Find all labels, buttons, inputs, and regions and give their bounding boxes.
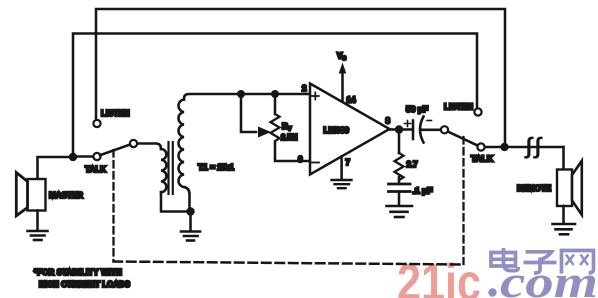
minus mark of 50uF bbox=[427, 120, 432, 122]
ground (transformer) bbox=[181, 232, 200, 241]
ground (remote speaker) bbox=[553, 224, 576, 234]
svg-text:2.5M: 2.5M bbox=[281, 133, 298, 142]
capacitor C1 50uF left plate bbox=[412, 121, 415, 140]
speaker MASTER cone bbox=[16, 173, 27, 216]
wire break to remote speaker bbox=[562, 147, 565, 170]
dashed wall partition bottom bbox=[114, 262, 464, 265]
wire node A down to wiper arrow bbox=[241, 94, 256, 132]
ground (C2) bbox=[387, 206, 413, 217]
pin 14 stub and Vs supply arrow bbox=[341, 72, 344, 102]
op-amp U1 LM380 bbox=[310, 84, 390, 175]
watermark chinese characters bbox=[491, 248, 594, 274]
svg-text:21ic: 21ic bbox=[397, 254, 481, 298]
minus input mark bbox=[312, 162, 319, 164]
svg-text:*FOR STABILITY WITH: *FOR STABILITY WITH bbox=[34, 268, 122, 277]
wire remote speaker to ground bbox=[562, 206, 565, 223]
switch contact LISTEN (master) bbox=[93, 120, 100, 127]
svg-text:REMOTE: REMOTE bbox=[517, 183, 551, 193]
wire RV bottom to op-amp - input bbox=[275, 143, 310, 161]
switch contact TALK (master) bbox=[93, 153, 100, 160]
svg-text:7: 7 bbox=[346, 158, 351, 167]
svg-text:TALK: TALK bbox=[471, 154, 494, 164]
svg-text:8: 8 bbox=[386, 117, 391, 126]
plus mark of 50uF bbox=[405, 121, 411, 127]
svg-text:MASTER: MASTER bbox=[49, 190, 83, 200]
svg-text:HIGH CURRENT LOADS: HIGH CURRENT LOADS bbox=[39, 280, 130, 289]
ground (master speaker) bbox=[28, 231, 48, 240]
transformer core bbox=[167, 142, 169, 194]
ground (pin 7) bbox=[332, 180, 352, 188]
wire node B down to RV top bbox=[274, 94, 277, 114]
switch contact TALK (remote) bbox=[477, 143, 484, 150]
node transformer common bbox=[186, 207, 194, 215]
switch pivot contact (remote) bbox=[441, 126, 448, 133]
svg-text:2: 2 bbox=[302, 84, 307, 93]
switch pivot contact (master, to T1 primary) bbox=[130, 140, 137, 147]
wire T1 secondary top to op-amp + input bbox=[184, 94, 310, 100]
wire op-amp output to node bbox=[390, 128, 400, 131]
wire node to ground bbox=[189, 212, 192, 231]
watermark 21ic.com bbox=[397, 254, 598, 298]
wire second bus from master TALK node to remote LISTEN bbox=[73, 34, 477, 156]
svg-text:.1 µF: .1 µF bbox=[413, 187, 433, 196]
node output bbox=[395, 125, 403, 133]
speaker REMOTE body bbox=[557, 170, 572, 207]
capacitor C2 .1uF bbox=[389, 184, 411, 192]
pin 7 stub bbox=[340, 157, 343, 179]
wire pivot to transformer primary bbox=[137, 144, 161, 150]
wire node to 50uF cap bbox=[399, 128, 412, 131]
svg-text:VS: VS bbox=[337, 52, 346, 63]
switch arm S2 (remote) bbox=[448, 132, 478, 146]
dashed wall partition right bbox=[462, 137, 464, 264]
svg-text:LISTEN: LISTEN bbox=[444, 102, 473, 112]
wire T1 secondary bottom to common node bbox=[184, 187, 190, 212]
resistor R1 2.7 bbox=[398, 130, 401, 154]
wire node to TALK contact bbox=[73, 155, 92, 158]
wire top bus from master LISTEN to remote TALK bbox=[96, 9, 505, 144]
svg-text:∫: ∫ bbox=[531, 135, 545, 161]
capacitor C1 50uF curved plate bbox=[420, 117, 424, 143]
svg-text:RV: RV bbox=[282, 122, 292, 133]
svg-text:LISTEN: LISTEN bbox=[101, 108, 130, 118]
wire TALK contact to node bbox=[485, 146, 501, 149]
svg-text:T1 = 25:1: T1 = 25:1 bbox=[198, 162, 234, 172]
plus input mark bbox=[312, 93, 319, 100]
svg-text:2.7: 2.7 bbox=[407, 160, 419, 169]
svg-text:LM380: LM380 bbox=[324, 126, 350, 135]
svg-text:14: 14 bbox=[347, 96, 356, 105]
wire cap to switch pivot bbox=[422, 129, 441, 132]
dashed wall partition left bbox=[112, 150, 114, 261]
wire node to cable break bbox=[505, 146, 564, 149]
node remote TALK junction bbox=[500, 143, 508, 151]
svg-text:50 µF: 50 µF bbox=[406, 105, 428, 114]
node B (RV top branch) bbox=[271, 90, 279, 98]
speaker REMOTE cone bbox=[572, 161, 582, 215]
switch contact LISTEN (remote) bbox=[474, 108, 481, 115]
transformer T1 secondary winding bbox=[178, 100, 184, 188]
transformer T1 primary winding bbox=[161, 149, 166, 192]
wire master node to speaker bbox=[38, 157, 74, 179]
switch arm S1 (master) bbox=[100, 145, 130, 156]
speaker MASTER body bbox=[28, 179, 46, 211]
node A (RV wiper branch) bbox=[237, 90, 245, 98]
wire T1 primary bottom to common node bbox=[161, 192, 187, 211]
svg-text:6: 6 bbox=[298, 155, 303, 164]
node master TALK junction bbox=[69, 153, 77, 161]
wire master speaker to ground bbox=[36, 211, 39, 230]
svg-text:TALK: TALK bbox=[85, 164, 107, 174]
potentiometer RV 2.5M bbox=[271, 114, 280, 143]
wiper arrow of RV bbox=[258, 127, 271, 138]
